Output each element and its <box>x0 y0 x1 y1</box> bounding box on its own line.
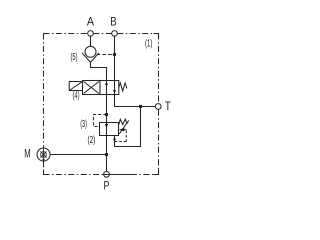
check valve (5) ball <box>85 46 96 57</box>
wire valve (4) to T <box>115 95 156 107</box>
junction dot pilot branch on P line <box>105 113 108 116</box>
relief valve (2) body <box>100 123 119 136</box>
valve (4) solenoid box <box>69 82 82 91</box>
enclosure boundary (1) dash-dot frame <box>44 34 159 175</box>
port T circle <box>155 104 161 110</box>
port B circle <box>112 31 118 37</box>
svg-text:B: B <box>110 17 117 29</box>
svg-text:(4): (4) <box>73 91 80 102</box>
svg-text:A: A <box>87 17 95 29</box>
boundary corner stubs <box>44 34 159 175</box>
wire M gauge to P line <box>50 154 107 156</box>
relief valve outlet arrow <box>113 139 116 143</box>
relief valve (2) pilot drain dashed <box>115 131 127 142</box>
relief valve (2) spring <box>119 119 128 125</box>
junction dot M branch on P line <box>105 153 108 156</box>
gauge port M circle with cross <box>37 148 50 161</box>
svg-text:(1): (1) <box>145 39 152 50</box>
valve (4) solenoid diagonal <box>69 82 82 91</box>
relief valve (2) adjustment arrow <box>119 120 129 133</box>
svg-text:T: T <box>165 101 171 113</box>
svg-text:(3): (3) <box>80 119 87 130</box>
pilot line (3) dashed <box>94 115 107 127</box>
valve (4) position box 1 crossed <box>83 81 101 95</box>
relief valve (2) pilot arrow into body <box>119 128 125 131</box>
relief valve (2) entry arrow <box>105 124 108 128</box>
junction dot T line / relief outlet <box>139 105 142 108</box>
svg-text:(2): (2) <box>88 135 96 146</box>
wire check valve to valve (4) <box>91 62 107 80</box>
svg-text:P: P <box>104 181 110 193</box>
valve (4) position box 2 through-flow <box>100 81 119 95</box>
port A circle <box>88 31 94 37</box>
wire P port to boundary (solid stub) <box>109 174 131 176</box>
svg-text:(5): (5) <box>71 52 78 63</box>
pilot line check valve to B line (dashed) <box>97 54 115 56</box>
check valve (5) seat <box>82 53 99 63</box>
port P circle <box>104 171 110 177</box>
valve (4) spring <box>119 83 127 91</box>
svg-text:M: M <box>24 148 30 160</box>
wire A to check valve <box>90 36 92 46</box>
wire B down to valve (4) <box>114 36 116 80</box>
junction dot pilot/B <box>113 53 116 56</box>
relief valve outlet wire to T line <box>115 107 141 146</box>
wire P main line valve (4) down to P port <box>106 95 108 172</box>
